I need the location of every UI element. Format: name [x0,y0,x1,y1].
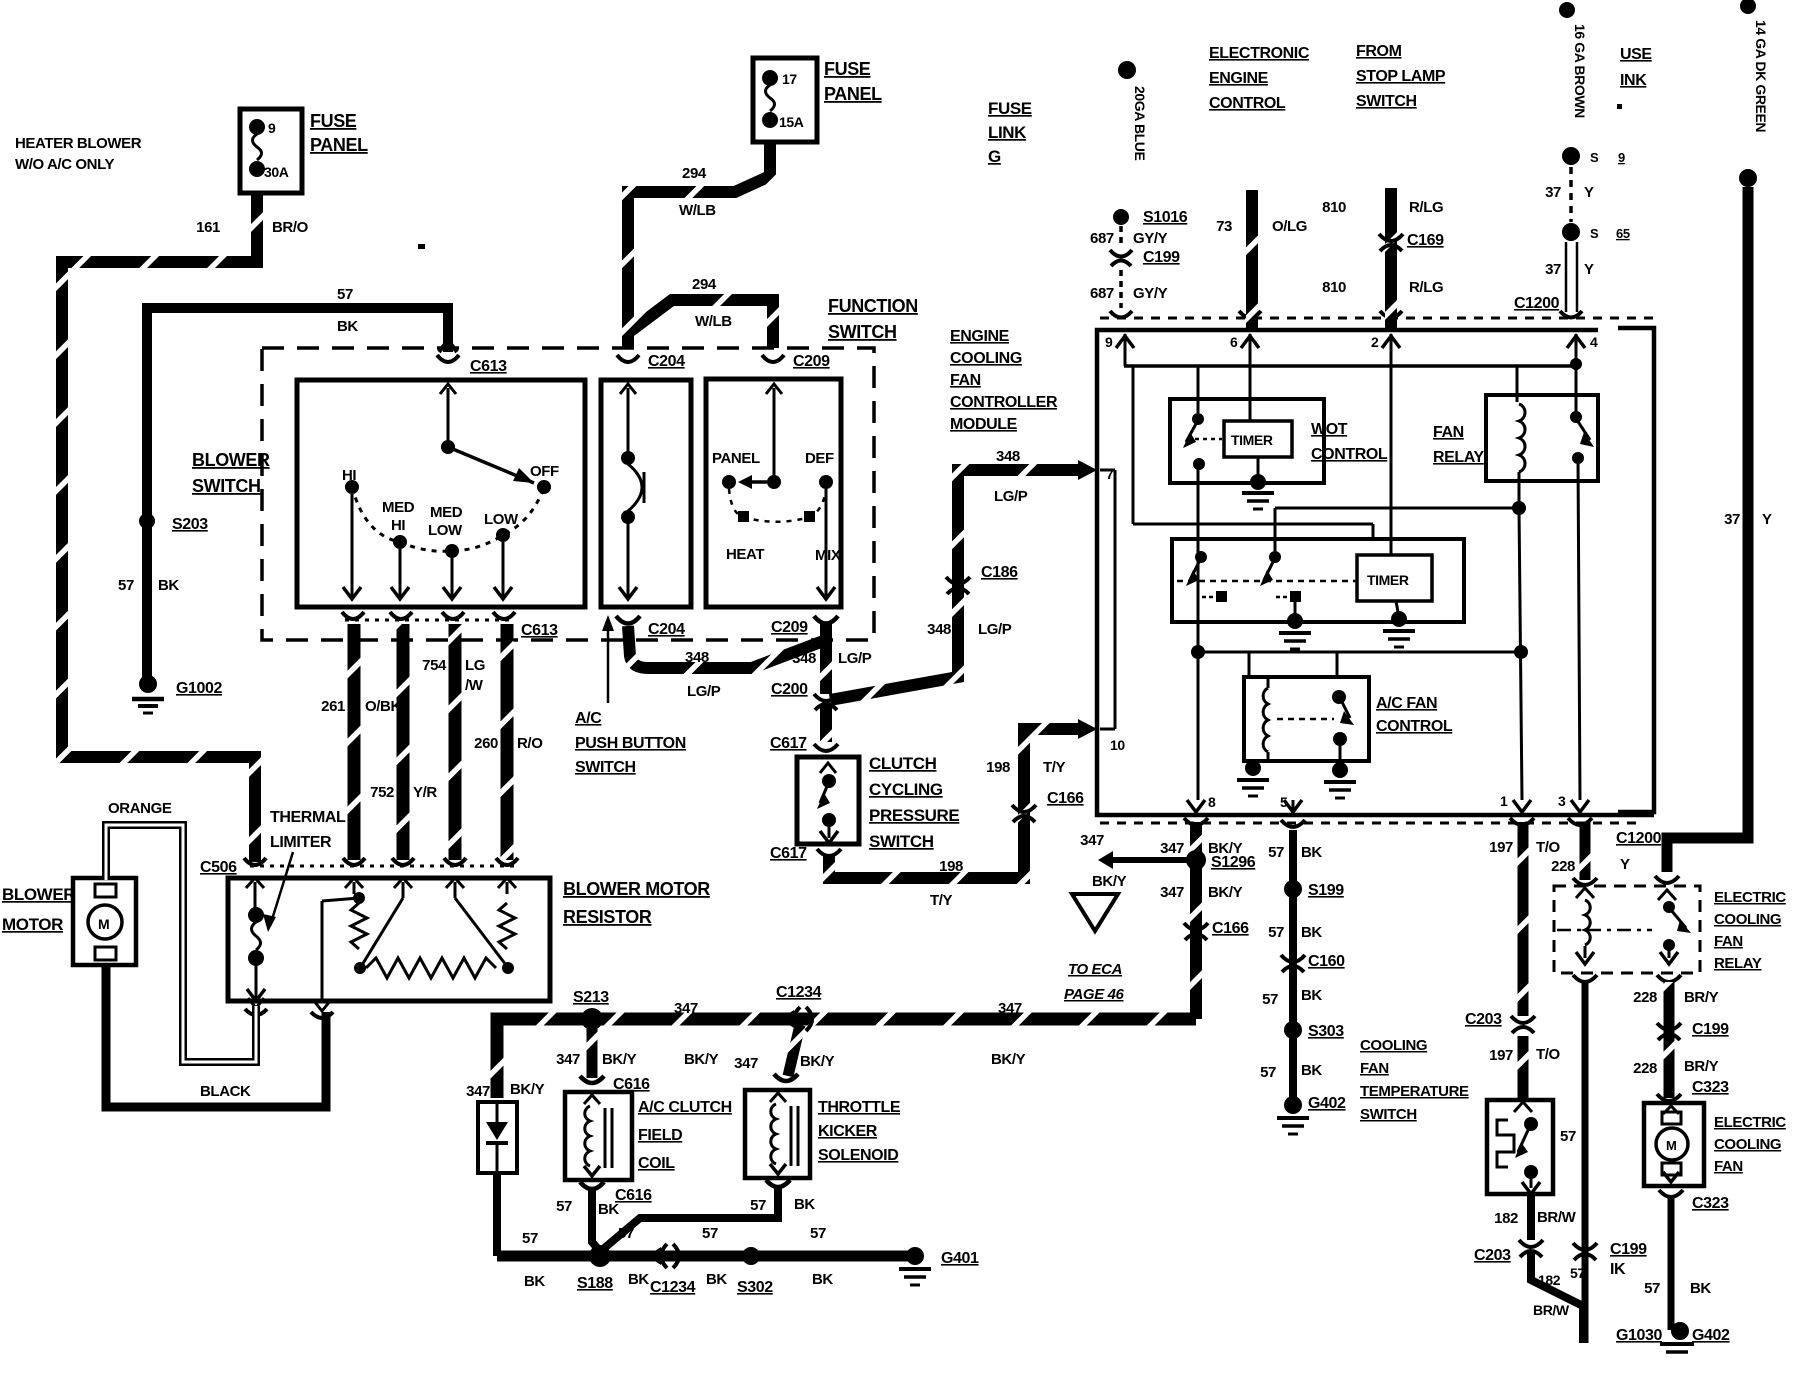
label fan relay [1433,424,1484,466]
svg-text:W/LB: W/LB [679,202,716,219]
svg-text:57: 57 [337,286,353,303]
module internal bus [1124,358,1582,370]
splice S213 [573,989,609,1030]
svg-text:57: 57 [618,1225,634,1242]
svg-text:Y/R: Y/R [413,784,437,801]
clutch cycling pressure switch box [797,757,859,844]
module pin 1 bottom [1500,793,1531,812]
label fuse link G [988,99,1032,166]
function switch contacts [712,384,841,599]
connector C199 top [1110,249,1180,266]
wire 294 W/LB to C204 [628,142,770,348]
splice dot S [1562,147,1625,165]
splice S1296 [1186,850,1256,871]
svg-text:CONTROLLER: CONTROLLER [950,394,1058,411]
svg-text:T/O: T/O [1536,839,1561,856]
black wire [106,964,326,1107]
svg-text:57: 57 [1268,844,1284,861]
svg-text:4: 4 [1590,334,1598,350]
svg-text:C203: C203 [1465,1011,1502,1028]
svg-text:347: 347 [556,1051,580,1068]
svg-text:O/LG: O/LG [1272,218,1307,235]
connector C1234 kicker top [774,1074,798,1081]
splice S203 [139,513,208,533]
svg-text:LG/P: LG/P [978,621,1012,638]
svg-text:9: 9 [1618,150,1625,165]
svg-text:348: 348 [685,649,709,666]
svg-text:SWITCH: SWITCH [575,759,636,776]
svg-text:C506: C506 [200,859,237,876]
svg-text:BK/Y: BK/Y [602,1051,637,1068]
svg-text:BK: BK [794,1196,815,1213]
timer2 contact a [1186,551,1227,602]
pin7/pin10 link [1100,470,1115,729]
svg-text:3: 3 [1558,793,1566,809]
ECF relay coil [1576,888,1594,964]
wire 347 BK/Y to diode [466,1081,544,1100]
svg-text:C160: C160 [1308,953,1345,970]
thermal limiter [246,878,265,1001]
svg-text:SWITCH: SWITCH [869,832,934,851]
svg-text:SWITCH: SWITCH [192,476,261,496]
svg-text:LOW: LOW [428,522,463,539]
svg-text:C203: C203 [1474,1247,1511,1264]
module pin 4 top [1567,334,1598,366]
svg-text:R/LG: R/LG [1409,199,1443,216]
svg-text:57: 57 [810,1225,826,1242]
label A/C push button switch with arrow [575,615,686,776]
svg-text:SWITCH: SWITCH [1360,1106,1417,1123]
clutch switch contacts [817,763,838,843]
svg-text:LOW: LOW [484,511,519,528]
svg-text:G: G [988,147,1001,166]
connector C204 top [617,353,685,370]
wire 182 BR/W to join [1531,1252,1585,1343]
svg-text:BLOWER MOTOR: BLOWER MOTOR [563,879,710,899]
svg-text:687: 687 [1090,285,1114,302]
wire 348 LG/P C200 to C617 [820,706,832,742]
fan relay contact [1570,366,1594,800]
svg-text:FAN: FAN [1714,933,1743,950]
blower switch dashed enclosure [262,348,874,640]
timer box 2 [1172,539,1464,622]
svg-text:5: 5 [1280,794,1288,810]
svg-text:MED: MED [430,504,463,521]
svg-text:RELAY: RELAY [1714,955,1762,972]
ground bus 57 BK [497,1251,915,1262]
svg-text:6: 6 [1230,334,1238,350]
timer 1 [1224,421,1292,457]
wire from relay coil down (solid) [1582,980,1589,1343]
label function switch [828,296,918,342]
svg-text:FAN: FAN [1714,1158,1743,1175]
svg-text:BR/Y: BR/Y [1684,989,1719,1006]
svg-text:FUNCTION: FUNCTION [828,296,918,316]
svg-text:S199: S199 [1308,882,1344,899]
module pin 3 bottom [1558,793,1589,812]
svg-text:57: 57 [702,1225,718,1242]
svg-text:LG/P: LG/P [994,488,1028,505]
svg-text:FAN: FAN [950,372,981,389]
svg-text:1: 1 [1500,793,1508,809]
svg-text:BK: BK [1301,924,1322,941]
A/C push button switch box [601,380,691,607]
svg-text:57: 57 [1268,924,1284,941]
connector C204 bottom [616,616,685,638]
timer2 ground [1383,601,1415,647]
label electronic engine control [1209,45,1310,112]
svg-text:C200: C200 [771,681,808,698]
svg-text:C613: C613 [521,622,558,639]
svg-text:C169: C169 [1407,232,1444,249]
svg-text:C166: C166 [1212,920,1249,937]
svg-text:G401: G401 [941,1250,979,1267]
svg-text:O/BK: O/BK [365,698,401,715]
svg-text:M: M [1666,1138,1676,1153]
wire 57 BK fan to ground [1644,1196,1711,1330]
svg-text:228: 228 [1633,989,1657,1006]
connector into relay (contact side) [1655,876,1679,883]
svg-text:THROTTLE: THROTTLE [818,1099,901,1116]
svg-text:FUSE: FUSE [824,59,871,79]
connector C616 bottom [556,1182,652,1218]
svg-text:C616: C616 [615,1187,652,1204]
svg-text:ELECTRONIC: ELECTRONIC [1209,45,1310,62]
svg-text:C166: C166 [1047,790,1084,807]
pin2 wire to timer2 [1390,334,1393,555]
svg-text:TIMER: TIMER [1231,432,1273,448]
svg-text:15A: 15A [779,114,804,130]
svg-text:C323: C323 [1692,1079,1729,1096]
blower switch box [297,380,585,607]
svg-text:57: 57 [1260,1064,1276,1081]
svg-text:260: 260 [474,735,498,752]
svg-text:CYCLING: CYCLING [869,780,943,799]
svg-text:C1234: C1234 [650,1279,696,1296]
svg-text:752: 752 [370,784,394,801]
svg-text:FAN: FAN [1360,1060,1389,1077]
timer2 contact ground [1279,602,1311,649]
svg-text:7: 7 [1106,466,1114,482]
svg-text:MED: MED [382,499,415,516]
svg-text:BK: BK [158,577,179,594]
svg-text:COOLING: COOLING [950,350,1022,367]
svg-text:R/LG: R/LG [1409,279,1443,296]
svg-text:198: 198 [939,858,963,875]
relay output connectors [1573,975,1681,982]
svg-text:9: 9 [268,120,276,136]
svg-text:C186: C186 [981,564,1018,581]
svg-text:Y: Y [1584,184,1594,201]
wire 198 T/Y to module pin10 [829,729,1086,878]
svg-text:182: 182 [1538,1272,1561,1288]
svg-text:W/LB: W/LB [695,313,732,330]
connector C617 top [770,735,838,752]
svg-text:FAN: FAN [1433,424,1464,441]
svg-text:65: 65 [1616,226,1630,241]
module cross wire [1198,651,1521,654]
wire 348 LG/P from C204 joining C209 [628,626,826,668]
svg-text:ENGINE: ENGINE [950,328,1010,345]
connector C209 bottom [771,616,838,636]
WOT relay contact [1183,366,1222,470]
svg-text:348: 348 [792,650,816,667]
svg-text:294: 294 [682,165,707,182]
switch position contacts HI MED-HI MED-LOW LOW OFF [345,480,551,558]
connector C166 on pin8 wire [1184,920,1249,940]
connector C323 bottom [1659,1190,1729,1212]
svg-text:HEAT: HEAT [726,546,764,563]
A/C fan control feeds [1249,652,1337,677]
connector C617 bottom [770,845,841,862]
label clutch cycling pressure switch [869,754,959,851]
svg-text:LG/P: LG/P [687,683,721,700]
svg-text:BLOWER: BLOWER [2,885,75,904]
wire 752 Y/R [397,624,410,860]
label thermal limiter with arrow [263,809,346,932]
timer2 dashed link [1177,580,1357,583]
wire 73 O/LG [1216,190,1307,330]
svg-text:BK: BK [628,1271,649,1288]
svg-text:S: S [1590,226,1599,241]
svg-text:BK/Y: BK/Y [800,1053,835,1070]
ECFC module box [1097,328,1654,815]
connector C199 on fan wire [1657,1021,1729,1040]
svg-text:57: 57 [1560,1128,1576,1145]
blower switch wiper [440,384,534,483]
wire 57 BK from module pin5 [1268,830,1322,1105]
16 GA BROWN tag [1559,2,1588,118]
fan relay box [1486,395,1598,481]
svg-text:347: 347 [1080,832,1104,849]
diode to ground bus [493,1173,501,1256]
wire 161 BR/O from fuse panel to C506 [62,193,257,862]
connector C1200 bottom row [1100,818,1662,847]
wire 37 Y double line [1545,242,1594,312]
svg-text:ENGINE: ENGINE [1209,70,1269,87]
label WOT control [1311,421,1388,463]
svg-text:BK: BK [812,1271,833,1288]
wire 57 BK to blower switch [147,308,448,678]
connector C506 [200,858,518,876]
svg-text:G1030: G1030 [1616,1327,1663,1344]
svg-text:S: S [1590,150,1599,165]
svg-text:347: 347 [1160,840,1184,857]
svg-text:10: 10 [1110,737,1125,753]
svg-text:A/C FAN: A/C FAN [1376,695,1437,712]
svg-text:57: 57 [1262,991,1278,1008]
svg-text:RESISTOR: RESISTOR [563,907,652,927]
svg-text:MIX: MIX [815,547,841,564]
svg-text:TEMPERATURE: TEMPERATURE [1360,1083,1469,1100]
svg-text:BK: BK [524,1273,545,1290]
svg-text:228: 228 [1633,1060,1657,1077]
label blower motor [2,885,75,934]
wire 228 BR/Y from relay contact to fan [1633,982,1718,1098]
connector C616 top [580,1076,650,1093]
timer1 ground [1242,457,1274,509]
fuse panel 2 (17, 15A) [753,58,817,142]
connector C203 top [1465,1011,1535,1033]
svg-text:FUSE: FUSE [310,111,357,131]
svg-text:S188: S188 [577,1275,613,1292]
svg-text:KICKER: KICKER [818,1123,878,1140]
WOT control box [1170,399,1324,483]
svg-text:WOT: WOT [1311,421,1348,438]
svg-text:PANEL: PANEL [712,450,760,467]
svg-text:347: 347 [1160,884,1184,901]
svg-text:PRESSURE: PRESSURE [869,806,959,825]
pin8 internal wire [1191,464,1205,800]
fan relay coil [1517,366,1525,505]
svg-text:197: 197 [1489,1047,1513,1064]
svg-text:BR/O: BR/O [272,219,309,236]
svg-text:THERMAL: THERMAL [270,809,346,826]
svg-text:W/O A/C ONLY: W/O A/C ONLY [15,156,114,173]
module junction dots and pin1 wire [1512,501,1528,800]
label use ink [1617,46,1652,109]
svg-text:73: 73 [1216,218,1232,235]
cooling fan temperature switch box [1487,1100,1576,1194]
svg-text:FROM: FROM [1356,43,1402,60]
wire 754 LG/W [449,624,462,860]
timer2 contact b [1260,551,1301,602]
svg-text:9: 9 [1105,334,1113,350]
svg-text:C209: C209 [771,619,808,636]
svg-text:FIELD: FIELD [638,1127,682,1144]
svg-text:CONTROL: CONTROL [1376,718,1453,735]
wire 348 LG/P from C209 to C200 [820,624,832,694]
label A/C fan control [1376,695,1453,735]
svg-text:S1296: S1296 [1211,854,1256,871]
svg-text:261: 261 [321,698,345,715]
label throttle kicker solenoid [818,1099,901,1164]
connector C1200 top row [1100,295,1656,318]
svg-text:BK/Y: BK/Y [684,1051,719,1068]
svg-text:BK/Y: BK/Y [510,1081,545,1098]
svg-text:57: 57 [556,1198,572,1215]
svg-text:S1016: S1016 [1143,209,1188,226]
connector into relay (coil side) [1573,878,1597,885]
svg-text:8: 8 [1208,794,1216,810]
branch to ECA [1080,832,1196,890]
stray mark [418,244,425,249]
splice S199 [1284,880,1344,899]
svg-text:C209: C209 [793,353,830,370]
splice S 65 [1562,223,1630,241]
svg-text:USE: USE [1620,46,1652,63]
ground G401 [899,1247,979,1285]
svg-text:SWITCH: SWITCH [1356,93,1417,110]
wire 37 Y dashed [1545,167,1594,222]
svg-text:C1200: C1200 [1616,830,1662,847]
svg-text:C199: C199 [1692,1021,1729,1038]
wire 347 BK/Y bus [497,1019,1196,1098]
svg-text:BK/Y: BK/Y [991,1051,1026,1068]
svg-text:57: 57 [522,1230,538,1247]
svg-text:14 GA DK GREEN: 14 GA DK GREEN [1753,20,1769,132]
svg-text:G1002: G1002 [176,680,223,697]
label blower motor resistor [563,879,710,927]
svg-text:BK: BK [706,1271,727,1288]
svg-text:CLUTCH: CLUTCH [869,754,937,773]
wire 182 BR/W below temp switch [1494,1196,1576,1240]
diode box [478,1102,517,1173]
svg-text:COOLING: COOLING [1714,911,1781,928]
label A/C clutch field coil [638,1099,732,1172]
svg-text:COOLING: COOLING [1714,1136,1781,1153]
orange wire (double line) [106,800,256,1062]
wire 260 R/O [501,624,514,860]
wire 37 Y heavy to cooling fan relay [1667,187,1772,872]
wire 228 Y from module pin3 [1551,822,1630,880]
wire 347 BK/Y to throttle kicker [734,1025,834,1076]
svg-text:G402: G402 [1692,1327,1730,1344]
svg-text:294: 294 [692,276,717,293]
svg-text:G402: G402 [1308,1095,1346,1112]
A/C fan control coil [1263,677,1268,761]
label to ECA page 46 [1064,961,1125,1003]
off-page arrow to ECA [1072,894,1118,931]
connector C613 top [437,340,507,375]
pin6 wire to timer1 [1249,366,1252,421]
connector C160 [1281,953,1345,972]
svg-text:348: 348 [927,621,951,638]
svg-text:A/C CLUTCH: A/C CLUTCH [638,1099,732,1116]
wire 347 BK/Y S213 branch to C616 [556,1025,636,1078]
svg-text:COIL: COIL [638,1155,675,1172]
svg-text:TO ECA: TO ECA [1068,961,1122,978]
wires from contacts to C613 bottom [343,494,512,599]
svg-text:HI: HI [391,517,405,534]
svg-text:347: 347 [734,1055,758,1072]
svg-text:LIMITER: LIMITER [270,834,332,851]
svg-text:ORANGE: ORANGE [108,800,172,817]
svg-text:20GA BLUE: 20GA BLUE [1132,86,1148,161]
svg-text:C199: C199 [1143,249,1180,266]
svg-text:TIMER: TIMER [1367,572,1409,588]
svg-text:57: 57 [118,577,134,594]
A/C clutch field coil box [565,1092,632,1180]
connector C613 bottom [342,612,558,639]
label electric cooling fan relay [1714,889,1786,972]
svg-text:57: 57 [750,1197,766,1214]
svg-text:LG: LG [465,657,485,674]
svg-text:CONTROL: CONTROL [1311,446,1388,463]
svg-text:810: 810 [1322,279,1346,296]
svg-text:348: 348 [996,448,1020,465]
svg-text:MOTOR: MOTOR [2,915,63,934]
label engine cooling fan controller module [950,328,1058,433]
svg-text:A/C: A/C [575,710,602,727]
splice S1016 [1113,209,1188,226]
label fuse panel 2 [824,59,882,104]
svg-text:MODULE: MODULE [950,416,1018,433]
svg-text:754: 754 [422,657,447,674]
svg-text:198: 198 [986,759,1010,776]
svg-text:197: 197 [1489,839,1513,856]
function switch box [706,379,841,607]
svg-text:PANEL: PANEL [824,84,882,104]
ground G1002 [132,675,223,713]
svg-text:BR/Y: BR/Y [1684,1058,1719,1075]
module pin 9 top [1105,334,1134,366]
wire bus to timer2 contacts [1133,366,1519,551]
svg-text:C199: C199 [1610,1241,1647,1258]
svg-text:S303: S303 [1308,1023,1344,1040]
wire 261 O/BK [348,624,361,860]
wire 687 GY/Y dashed [1090,226,1168,247]
